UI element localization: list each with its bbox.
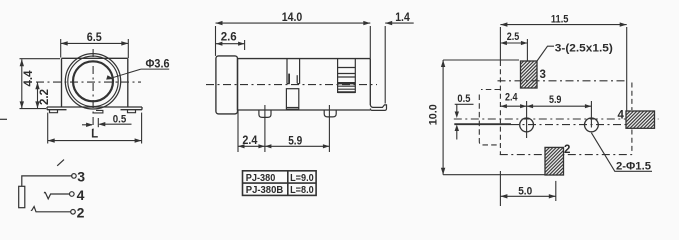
svg-text:2.4: 2.4 (242, 135, 258, 147)
svg-text:4: 4 (618, 110, 625, 122)
svg-text:2-Φ1.5: 2-Φ1.5 (616, 160, 651, 172)
svg-text:2.6: 2.6 (221, 31, 237, 43)
svg-text:5.9: 5.9 (549, 94, 562, 106)
sleeve contact rectangle (19, 186, 25, 207)
contact edge line B2 solid (454, 123, 511, 125)
stray diagonal tick (57, 160, 64, 166)
dim 6.5 line with arrows (61, 41, 129, 45)
leader 2-phi1.5 (591, 133, 652, 172)
svg-text:L=8.0: L=8.0 (290, 184, 314, 196)
svg-text:4.4: 4.4 (23, 70, 35, 87)
dim 6.5 extension lines (61, 39, 129, 58)
dim 10.0 (441, 60, 546, 175)
centerline C (500, 154, 632, 156)
dims 2.4 / 5.9 side (238, 105, 329, 152)
svg-text:0.5: 0.5 (113, 113, 127, 125)
nose bushing rounded rect (216, 56, 238, 114)
dim 4.4 (20, 59, 61, 109)
svg-text:4: 4 (77, 187, 85, 203)
dim 0.5 right view (455, 104, 474, 139)
svg-text:2.5: 2.5 (507, 31, 520, 43)
bent foot right (370, 105, 386, 111)
svg-text:2.4: 2.4 (505, 92, 518, 104)
svg-text:5.9: 5.9 (288, 135, 302, 147)
svg-text:L: L (91, 129, 98, 141)
switch ladder stack (338, 59, 356, 93)
svg-text:L=9.0: L=9.0 (290, 172, 314, 184)
right foot (128, 110, 136, 113)
svg-text:2: 2 (564, 144, 570, 156)
pin 2 side (324, 110, 336, 117)
phi 3.6 leader (106, 69, 169, 80)
bottom key tab (92, 110, 103, 113)
centerline A (498, 80, 626, 82)
svg-text:0.5: 0.5 (457, 93, 470, 105)
svg-text:14.0: 14.0 (282, 12, 303, 24)
terminal circle 4 (70, 192, 75, 197)
pad 4 hatched (626, 111, 655, 128)
dims 2.4 / 5.9 right view (500, 101, 591, 138)
dim 2.5 (500, 39, 527, 61)
terminal circle 3 (72, 174, 77, 179)
center slot contact lines (287, 59, 300, 84)
dim 2.6 (216, 40, 245, 50)
side view centerline (206, 84, 377, 86)
center lower contact rect (286, 89, 298, 110)
L dimension (48, 113, 142, 144)
svg-text:PJ-380B: PJ-380B (246, 184, 284, 196)
bushing inner circle (73, 61, 113, 101)
tip lever hook pin2 (31, 207, 71, 212)
hole 1 (520, 118, 534, 132)
svg-text:5.0: 5.0 (518, 186, 532, 198)
dashed right body edge (631, 83, 633, 155)
dim 11.5 (500, 22, 626, 111)
svg-text:1.4: 1.4 (395, 12, 410, 24)
svg-text:2: 2 (77, 204, 85, 220)
bushing outer circle (65, 54, 120, 109)
horizontal centerline front (36, 81, 141, 83)
dashed nose outline (481, 89, 500, 91)
svg-text:11.5: 11.5 (551, 13, 569, 25)
bushing middle circle (68, 56, 118, 106)
svg-text:10.0: 10.0 (428, 104, 440, 125)
svg-text:2.2: 2.2 (39, 89, 51, 105)
pad 3 hatched (521, 61, 538, 88)
body rectangle front (62, 58, 128, 107)
hole 2 (585, 118, 599, 132)
vertical centerline front (92, 49, 94, 131)
dim 2.2 (35, 82, 39, 108)
shared bottom extension (20, 108, 47, 110)
switch contact pin4 (44, 192, 69, 199)
part number table (243, 171, 317, 196)
svg-text:3: 3 (77, 168, 85, 184)
flange line full width (47, 107, 142, 110)
pin 1 side (259, 110, 271, 117)
centerline B1 (454, 118, 659, 120)
dim 1.4 (385, 21, 414, 104)
svg-text:6.5: 6.5 (87, 32, 103, 44)
pad 2 hatched (545, 147, 564, 175)
svg-text:PJ-380: PJ-380 (246, 172, 276, 184)
terminal circle 2 (71, 210, 76, 215)
dashed body left edge (499, 61, 501, 155)
dim 5.0 (500, 171, 555, 206)
leader 3-(2.5x1.5) (537, 46, 554, 61)
wire pin3 (22, 176, 73, 186)
left foot (50, 110, 58, 113)
centerline B2 dashed continuation (511, 124, 631, 126)
dim 0.5 front (82, 118, 132, 127)
svg-text:3: 3 (540, 69, 546, 81)
stray edge dash (0, 118, 7, 120)
svg-text:3-(2.5x1.5): 3-(2.5x1.5) (555, 43, 613, 55)
body rectangle side (238, 59, 371, 110)
svg-text:Φ3.6: Φ3.6 (146, 59, 170, 71)
dim 14.0 (216, 21, 371, 59)
